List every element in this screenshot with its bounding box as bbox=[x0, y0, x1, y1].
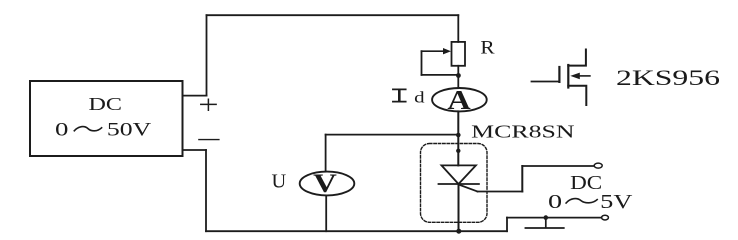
rheostat wiper arrow bbox=[422, 50, 445, 52]
wire: thyristor cathode down to rail bbox=[458, 184, 460, 231]
wire: wiper loop vertical bbox=[421, 51, 423, 75]
plus terminal stub wire bbox=[183, 95, 207, 97]
svg-text:0: 0 bbox=[55, 120, 68, 141]
wire: wiper loop bottom horizontal bbox=[422, 74, 459, 76]
wire: top horizontal rail bbox=[207, 14, 459, 16]
lower terminal circle bbox=[602, 215, 609, 220]
thyristor cathode bar bbox=[439, 183, 479, 185]
wire: resistor to ammeter bbox=[457, 66, 459, 88]
wire: top right vertical down to resistor bbox=[457, 15, 459, 42]
svg-text:2KS956: 2KS956 bbox=[616, 65, 720, 90]
junction dot at ground tap bbox=[544, 215, 549, 220]
minus terminal stub wire bbox=[183, 149, 207, 151]
wire: voltmeter lower lead bbox=[325, 195, 327, 231]
label 0~50V : tilde bbox=[74, 127, 101, 131]
junction dot bottom rail / cathode bbox=[456, 229, 461, 234]
upper terminal circle bbox=[594, 163, 602, 168]
label 0~5V : tilde bbox=[566, 199, 597, 203]
dc source box DC 0~50V bbox=[30, 81, 183, 156]
ammeter A bbox=[432, 88, 487, 111]
svg-text:d: d bbox=[414, 90, 425, 107]
wire: gate to upper terminal bbox=[522, 165, 594, 167]
resistor R (rheostat body) bbox=[452, 42, 466, 66]
svg-text:DC: DC bbox=[89, 94, 123, 114]
label Id : I (wide-serif capital I drawn) bbox=[393, 89, 406, 101]
wire: gate vertical up bbox=[521, 166, 523, 192]
thyristor MCR8SN : anode triangle bbox=[442, 165, 476, 184]
svg-text:V: V bbox=[313, 168, 337, 198]
svg-text:50V: 50V bbox=[107, 120, 152, 141]
wire: voltmeter top horizontal bbox=[326, 134, 459, 136]
wire: voltmeter upper lead bbox=[325, 135, 327, 172]
wire: minus vertical down bbox=[205, 150, 207, 231]
svg-text:DC: DC bbox=[570, 172, 602, 194]
svg-text:U: U bbox=[272, 171, 287, 192]
wire: bottom rail bbox=[206, 230, 507, 232]
mosfet channel bar bbox=[567, 65, 569, 88]
junction dot below resistor bbox=[456, 73, 461, 78]
mosfet bottom stub and source bbox=[568, 86, 586, 105]
dashed module box MCR8SN bbox=[421, 144, 488, 223]
svg-text:R: R bbox=[480, 38, 495, 59]
mosfet arrow (pointing into channel) bbox=[579, 75, 590, 77]
mosfet top stub and drain bbox=[568, 50, 586, 66]
wire: gate horizontal bbox=[478, 191, 523, 193]
voltmeter V bbox=[300, 172, 355, 196]
wire: left vertical from plus up bbox=[206, 15, 208, 95]
minus sign bbox=[199, 139, 219, 141]
node dot on anode inside dashed box bbox=[456, 149, 460, 153]
junction dot at voltmeter tap bbox=[456, 133, 461, 138]
mosfet gate bar bbox=[558, 67, 560, 82]
wire: ammeter down to thyristor anode bbox=[457, 111, 459, 165]
wire: rail step up bbox=[506, 218, 508, 232]
mosfet 2KS956 : gate lead bbox=[532, 81, 560, 83]
ground bbox=[525, 218, 563, 228]
svg-text:5V: 5V bbox=[600, 191, 633, 213]
svg-text:0: 0 bbox=[548, 191, 562, 213]
svg-text:MCR8SN: MCR8SN bbox=[471, 122, 575, 142]
thyristor gate diagonal lead bbox=[461, 185, 478, 191]
plus sign bbox=[201, 99, 216, 110]
wire: to lower terminal bbox=[507, 217, 602, 219]
